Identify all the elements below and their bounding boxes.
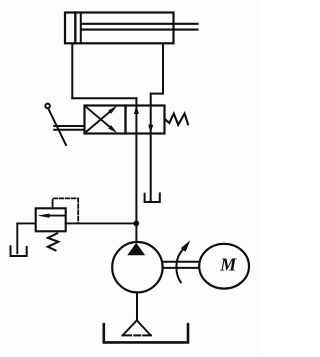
arrowhead up inside right box xyxy=(134,106,139,114)
wire: cylinder right port down xyxy=(162,44,164,94)
relief valve spring (below) xyxy=(48,233,59,250)
tank T3 (main reservoir) xyxy=(104,324,188,342)
relief valve internal arrow (points left) xyxy=(37,214,64,218)
wire: horizontal to valve port A xyxy=(72,97,136,99)
valve crossed path 1 (up-right arrow) xyxy=(87,106,118,132)
shaft upper line xyxy=(163,261,200,263)
wire: jog left to valve port B xyxy=(151,93,163,95)
relief valve V1 body xyxy=(36,208,66,231)
strainer left side xyxy=(123,320,137,335)
valve down-flow line (B to T) xyxy=(150,94,152,200)
wire: cylinder left port down xyxy=(71,44,73,98)
pilot line (dashed) xyxy=(53,198,79,222)
rotation arrow (arc) xyxy=(176,249,183,282)
lever knob xyxy=(45,104,50,109)
pump outlet triangle (filled, points up) xyxy=(127,243,145,256)
valve crossed path 2 (down-right arrow) xyxy=(87,107,118,133)
wire: pump suction down xyxy=(136,292,138,320)
valve return spring (right) xyxy=(165,114,188,125)
piston rod upper line xyxy=(82,23,198,25)
cylinder body xyxy=(65,13,174,44)
shaft lower line xyxy=(163,267,200,269)
wire: relief drain left xyxy=(17,222,35,224)
junction node (pump outlet / relief tap) xyxy=(133,220,139,226)
lever fork lower line xyxy=(54,129,84,131)
valve up-flow line (P to A) with main pressure line down to pump xyxy=(135,98,137,242)
piston line 2 xyxy=(80,13,82,44)
lever fork upper line xyxy=(54,125,84,127)
tank T1 (valve tank) xyxy=(145,193,160,202)
lever rod xyxy=(48,108,66,145)
relief valve pilot stub xyxy=(52,204,54,209)
valve U1 right box (parallel arrows) xyxy=(126,106,165,134)
strainer dashed base xyxy=(123,334,151,336)
pump P1 circle xyxy=(112,242,162,292)
valve U1 left box (crossed arrows) xyxy=(85,106,126,134)
tank T2 (relief drain tank) xyxy=(11,246,27,256)
strainer right side xyxy=(137,320,151,335)
wire: relief drain down xyxy=(16,223,18,253)
motor U2 circle xyxy=(199,244,249,289)
piston rod lower line xyxy=(82,29,198,31)
rotation arrowhead xyxy=(181,240,191,251)
wire: relief valve to main line xyxy=(66,222,134,224)
piston line 1 xyxy=(74,13,76,44)
arrowhead down inside right box xyxy=(148,125,153,133)
svg-text:M: M xyxy=(219,255,237,275)
